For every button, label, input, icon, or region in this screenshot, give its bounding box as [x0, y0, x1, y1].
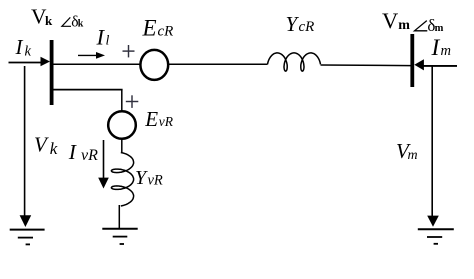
svg-text:I: I — [15, 35, 24, 59]
svg-text:m: m — [408, 148, 418, 163]
svg-text:E: E — [142, 15, 157, 40]
svg-text:cR: cR — [299, 19, 315, 35]
svg-text:vR: vR — [148, 172, 163, 188]
svg-text:V: V — [382, 8, 398, 33]
svg-text:m: m — [435, 23, 444, 34]
svg-text:k: k — [45, 13, 53, 28]
svg-text:Y: Y — [286, 12, 300, 36]
svg-text:E: E — [144, 107, 158, 131]
svg-text:m: m — [441, 43, 451, 59]
svg-text:k: k — [25, 44, 32, 60]
svg-text:k: k — [50, 139, 58, 158]
svg-text:vR: vR — [159, 114, 174, 129]
svg-text:I: I — [431, 35, 441, 61]
svg-text:k: k — [78, 18, 84, 29]
svg-text:Y: Y — [135, 167, 148, 189]
svg-text:I: I — [68, 140, 77, 164]
svg-text:I: I — [96, 24, 106, 49]
svg-text:l: l — [106, 34, 110, 49]
svg-text:vR: vR — [81, 147, 98, 164]
svg-text:m: m — [398, 18, 410, 33]
svg-text:cR: cR — [158, 23, 174, 39]
svg-text:V: V — [34, 133, 49, 157]
